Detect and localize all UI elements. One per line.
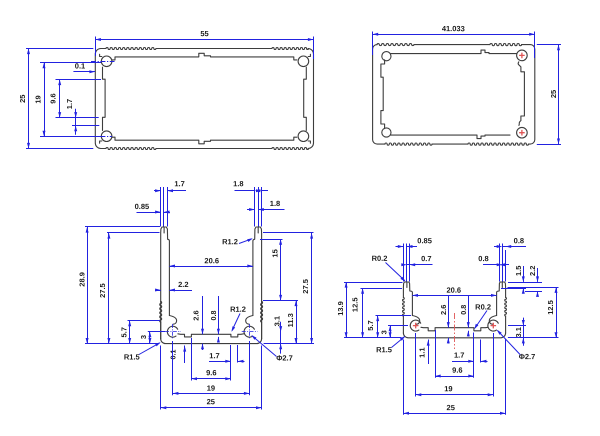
svg-text:20.6: 20.6 [204, 256, 219, 265]
svg-text:27.5: 27.5 [301, 279, 310, 294]
svg-text:1.7: 1.7 [174, 179, 184, 188]
profile 4 base outline [403, 333, 505, 338]
svg-text:25: 25 [549, 90, 558, 98]
profile 1 corner screw boss top-right [298, 56, 309, 67]
dimension 25 bottom [160, 346, 162, 410]
dimension 0.7 left tip [402, 264, 404, 266]
profile 1 corner screw boss top-left [101, 56, 112, 67]
profile 1 inner top edge with mid tab [112, 53, 297, 60]
dimension 41.033 top [372, 32, 374, 56]
profile 2 inner bottom edge with mid tab [391, 135, 510, 139]
svg-text:13.9: 13.9 [336, 301, 345, 316]
svg-text:19: 19 [444, 384, 452, 393]
profile 1 inner left wall with screw slot [103, 67, 106, 130]
profile 4 screw boss right with red mark [488, 320, 498, 331]
profile 2 mushroom cutout bottom-left [382, 128, 391, 137]
dimension 11.3 right [263, 300, 298, 302]
svg-text:19: 19 [207, 384, 215, 393]
dimension 9.6 left [56, 79, 102, 81]
dimension 3 left [388, 325, 408, 327]
dimension 0.85 wall tip [137, 212, 161, 214]
profile 3 screw boss left [167, 326, 177, 337]
svg-text:1.5: 1.5 [514, 266, 523, 276]
dimension 3.1 right [523, 318, 525, 346]
dimension 0.1 leader [73, 71, 95, 73]
profile 4 screw boss left with red mark [410, 320, 420, 331]
profile 1 inner bottom edge with mid tab [112, 137, 297, 144]
svg-text:1.8: 1.8 [270, 199, 280, 208]
svg-text:5.7: 5.7 [119, 327, 128, 337]
dimension 2.6 base [448, 296, 450, 328]
profile 2 outer outline (41.033x25 enclosure) [376, 44, 378, 46]
svg-text:3: 3 [139, 335, 148, 339]
profile 2 inner right wall with staircase steps [518, 62, 524, 126]
profile 3 right wall tip inner line [257, 228, 259, 233]
dimension 19 bottom fig4 [415, 333, 417, 397]
profile 4 left wall outline with tip [402, 316, 404, 333]
dimension 0.8 right tip a [499, 244, 501, 282]
svg-text:R1.2: R1.2 [222, 237, 238, 246]
dimension 1.1 bottom [428, 340, 430, 365]
svg-text:0.8: 0.8 [209, 311, 218, 321]
svg-text:0.85: 0.85 [417, 236, 432, 245]
svg-text:2.6: 2.6 [191, 310, 200, 320]
dimension 0.8 right tip b [494, 246, 499, 248]
svg-text:Φ2.7: Φ2.7 [276, 353, 293, 362]
svg-text:R0.2: R0.2 [372, 254, 388, 263]
profile 3 screw boss right [244, 326, 254, 337]
dimension 2.2 right tip [525, 291, 542, 293]
dimension 15 right [260, 239, 283, 241]
profile 4 base inner contour [412, 316, 419, 325]
dimension 0.1 bottom [184, 346, 186, 364]
dimension 5.7 left [376, 315, 412, 317]
profile 2 inner top edge with mid tab [391, 50, 517, 54]
dimension 1.7 left [72, 125, 99, 127]
svg-text:Φ2.7: Φ2.7 [519, 352, 536, 361]
svg-text:1.7: 1.7 [209, 351, 219, 360]
dimension 2.2 wall thickness [155, 290, 161, 292]
svg-text:1.8: 1.8 [233, 179, 243, 188]
leader R1.5 [139, 343, 160, 355]
profile 3 base inner contour [169, 316, 176, 325]
profile 2 inner left wall with step notches [381, 60, 385, 129]
svg-text:1.7: 1.7 [454, 351, 464, 360]
leader R1.2 top [239, 239, 252, 244]
dimension 0.8 groove [468, 296, 470, 328]
profile 2 screw boss top-right with red mark [517, 50, 528, 61]
dimension 9.6 bottom [191, 338, 193, 381]
dimension 19 bottom [172, 341, 174, 395]
dimension 20.6 inner width [169, 266, 253, 268]
dimension 28.9 left [85, 226, 160, 228]
profile 3 right wall outline with tip [261, 302, 263, 339]
dimension 19 left [40, 62, 101, 64]
boss centermark left [165, 331, 181, 333]
svg-text:2.6: 2.6 [439, 305, 448, 315]
svg-text:25: 25 [207, 397, 215, 406]
profile 3 base outline [161, 339, 262, 344]
dimension 55 top [95, 37, 97, 57]
svg-text:12.5: 12.5 [351, 297, 360, 312]
dimension 12.5 right [508, 287, 559, 289]
svg-text:0.85: 0.85 [135, 202, 150, 211]
svg-text:0.8: 0.8 [514, 236, 524, 245]
svg-text:3.1: 3.1 [272, 316, 281, 326]
leader R0.2 groove [475, 311, 487, 329]
profile 2 mushroom cutout top-left [382, 52, 391, 61]
svg-text:1.7: 1.7 [65, 99, 74, 109]
dimension 1.8 right wall step [247, 209, 255, 211]
svg-text:3.1: 3.1 [514, 327, 523, 337]
dimension 27.5 far right [263, 232, 314, 234]
dimension 3 left [148, 331, 165, 333]
svg-text:25: 25 [447, 403, 455, 412]
svg-text:R1.5: R1.5 [124, 352, 140, 361]
svg-text:28.9: 28.9 [78, 272, 87, 287]
svg-text:2.2: 2.2 [528, 266, 537, 276]
svg-text:9.6: 9.6 [452, 366, 462, 375]
svg-text:0.7: 0.7 [421, 254, 431, 263]
leader diameter 2.7 [252, 336, 277, 357]
svg-text:2.2: 2.2 [178, 280, 188, 289]
dimension 0.8 groove depth [218, 296, 220, 334]
svg-text:5.7: 5.7 [366, 320, 375, 330]
svg-text:15: 15 [270, 249, 279, 257]
dimension 1.7 bottom groove [230, 345, 232, 363]
dimension 1.7 wall tip [160, 187, 162, 227]
svg-text:25: 25 [18, 95, 27, 103]
profile 3 left wall tip inner line [163, 228, 165, 233]
dimension 25 left [26, 48, 93, 50]
svg-text:R1.5: R1.5 [376, 345, 392, 354]
dimension 27.5 left [107, 232, 160, 234]
svg-text:12.5: 12.5 [546, 300, 555, 315]
dimension 0.85 left tip [403, 244, 405, 282]
leader R1.2 bottom [232, 314, 240, 331]
dimension 13.9 left [344, 282, 403, 284]
dimension 12.5 left [361, 288, 403, 290]
profile 3 left wall outline with tip [160, 302, 162, 339]
svg-text:20.6: 20.6 [446, 286, 461, 295]
svg-text:41.033: 41.033 [442, 24, 465, 33]
dimension 9.6 bottom fig4 [435, 330, 437, 378]
svg-text:3: 3 [380, 330, 389, 334]
profile 1 outer outline (55x25 enclosure) [101, 48, 106, 50]
dimension 20.6 inner [412, 295, 496, 297]
svg-text:0.8: 0.8 [459, 305, 468, 315]
svg-text:0.1: 0.1 [75, 61, 85, 70]
svg-text:19: 19 [33, 95, 42, 103]
dimension 1.5 right tip height [508, 282, 542, 284]
svg-text:0.8: 0.8 [478, 254, 488, 263]
leader R0.2 top-left [386, 263, 405, 281]
svg-text:9.6: 9.6 [48, 93, 57, 103]
svg-text:R1.2: R1.2 [230, 305, 246, 314]
svg-text:55: 55 [200, 29, 208, 38]
leader diameter 2.7 fig4 [498, 331, 521, 356]
boss centerline bottom-left [91, 136, 112, 138]
svg-text:9.6: 9.6 [206, 368, 216, 377]
dimension 25 right [537, 44, 561, 46]
profile 1 inner right wall with screw slot [304, 67, 307, 130]
dimension 5.7 left [128, 320, 161, 322]
svg-text:11.3: 11.3 [286, 313, 295, 327]
leader R1.5 fig4 [392, 337, 405, 348]
boss centermark right [242, 331, 258, 333]
dimension 3.1 right [280, 322, 282, 354]
svg-text:1.1: 1.1 [417, 347, 426, 357]
boss centerline top-left [91, 61, 115, 63]
dimension 1.8 right wall tip [254, 187, 256, 227]
svg-text:27.5: 27.5 [98, 283, 107, 298]
dimension 2.6 base thickness [202, 296, 204, 334]
red centerline [454, 313, 456, 349]
profile 1 corner screw boss bottom-right [298, 131, 309, 142]
profile 1 corner screw boss bottom-left [101, 131, 112, 142]
dimension 1.7 bottom groove fig4 [473, 333, 475, 363]
dimension 25 bottom fig4 [403, 340, 405, 415]
profile 4 right wall outline with tip [505, 316, 507, 333]
svg-text:R0.2: R0.2 [475, 302, 491, 311]
profile 2 screw boss bottom-right with red mark [517, 127, 528, 138]
